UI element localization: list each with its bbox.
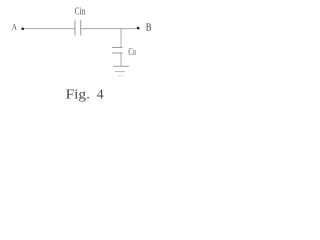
svg-text:B: B bbox=[133, 48, 136, 57]
capacitor C2 bottom plate bbox=[112, 52, 123, 54]
wire CB to ground bbox=[120, 53, 122, 66]
wire junction to CB bbox=[120, 29, 122, 47]
ground line 2 bbox=[115, 71, 125, 73]
svg-text:Cin: Cin bbox=[75, 7, 86, 18]
svg-text:Fig.: Fig. bbox=[66, 88, 90, 103]
wire A to Cin bbox=[24, 28, 75, 30]
svg-text:4: 4 bbox=[97, 88, 104, 103]
svg-text:B: B bbox=[146, 23, 152, 34]
ground line 1 bbox=[113, 65, 129, 67]
capacitor C1 left plate bbox=[74, 20, 76, 35]
node A dot bbox=[21, 28, 24, 31]
node B dot bbox=[137, 27, 140, 30]
svg-text:A: A bbox=[12, 23, 17, 32]
wire Cin to B bbox=[81, 28, 137, 30]
ground line 3 bbox=[118, 75, 124, 77]
capacitor C1 right plate bbox=[80, 20, 82, 35]
capacitor C2 top plate bbox=[112, 46, 123, 48]
